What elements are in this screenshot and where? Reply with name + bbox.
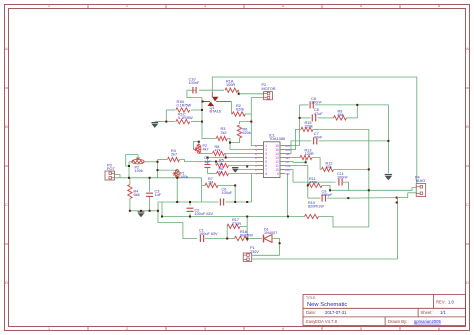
svg-text:G: G bbox=[255, 145, 257, 148]
svg-text:100nF: 100nF bbox=[189, 81, 200, 85]
svg-text:820R/1W: 820R/1W bbox=[308, 204, 324, 208]
svg-text:1.0: 1.0 bbox=[448, 300, 454, 305]
svg-text:100uF: 100uF bbox=[222, 191, 233, 195]
svg-text:VLT: VLT bbox=[285, 161, 290, 164]
svg-text:230V: 230V bbox=[250, 250, 259, 254]
svg-text:1M: 1M bbox=[208, 181, 213, 185]
svg-text:0.1R/5W: 0.1R/5W bbox=[178, 116, 193, 120]
svg-text:2k7: 2k7 bbox=[171, 152, 177, 156]
svg-text:620k: 620k bbox=[236, 107, 244, 111]
svg-text:B: B bbox=[5, 124, 8, 129]
svg-text:1/1: 1/1 bbox=[440, 310, 446, 315]
svg-text:47nF: 47nF bbox=[314, 136, 323, 140]
svg-text:TDA1085: TDA1085 bbox=[269, 137, 285, 141]
svg-text:A: A bbox=[466, 46, 469, 51]
svg-text:4k7: 4k7 bbox=[203, 147, 209, 151]
svg-text:6k8/5W: 6k8/5W bbox=[240, 233, 253, 237]
svg-text:C: C bbox=[5, 202, 8, 207]
svg-text:100nF: 100nF bbox=[337, 176, 348, 180]
svg-text:0.1R/5W: 0.1R/5W bbox=[177, 103, 192, 107]
svg-text:MOTOR: MOTOR bbox=[262, 87, 276, 91]
svg-text:MOT: MOT bbox=[285, 145, 291, 148]
svg-text:POT: POT bbox=[107, 167, 115, 171]
svg-text:2017-07-31: 2017-07-31 bbox=[325, 310, 347, 315]
svg-text:Drawn By:: Drawn By: bbox=[388, 319, 407, 324]
svg-text:SET: SET bbox=[285, 157, 290, 160]
svg-text:TAHO: TAHO bbox=[415, 179, 425, 183]
svg-text:SPD: SPD bbox=[285, 153, 290, 156]
svg-text:470k: 470k bbox=[309, 181, 317, 185]
svg-text:100k: 100k bbox=[180, 175, 188, 179]
svg-text:1k: 1k bbox=[219, 171, 223, 175]
svg-text:100uF 63V: 100uF 63V bbox=[199, 232, 218, 236]
svg-text:1k: 1k bbox=[219, 162, 223, 166]
svg-text:100nF: 100nF bbox=[311, 100, 322, 104]
svg-text:270R: 270R bbox=[232, 222, 241, 226]
svg-text:EasyEDA V4.7.8: EasyEDA V4.7.8 bbox=[306, 319, 338, 324]
svg-text:FRQ: FRQ bbox=[285, 169, 290, 172]
svg-text:D: D bbox=[5, 280, 8, 285]
svg-text:Date:: Date: bbox=[306, 310, 316, 315]
svg-text:TITLE:: TITLE: bbox=[306, 296, 316, 300]
svg-text:680pF: 680pF bbox=[322, 193, 333, 197]
svg-text:6k8: 6k8 bbox=[134, 193, 140, 197]
svg-text:1uF: 1uF bbox=[204, 160, 211, 164]
svg-text:68k: 68k bbox=[338, 113, 344, 117]
svg-text:A: A bbox=[5, 46, 8, 51]
svg-text:1N4007: 1N4007 bbox=[264, 231, 277, 235]
svg-text:C: C bbox=[466, 202, 469, 207]
svg-text:8: 8 bbox=[265, 172, 267, 176]
svg-text:BTA16: BTA16 bbox=[210, 110, 221, 114]
svg-text:Sheet:: Sheet: bbox=[421, 310, 433, 315]
svg-text:CUR: CUR bbox=[285, 165, 290, 168]
svg-text:220k: 220k bbox=[305, 125, 313, 129]
svg-text:100uF 63V: 100uF 63V bbox=[195, 212, 214, 216]
svg-text:RMP: RMP bbox=[285, 149, 291, 152]
svg-text:B: B bbox=[466, 124, 469, 129]
svg-text:100k: 100k bbox=[135, 169, 143, 173]
svg-text:120R: 120R bbox=[305, 152, 314, 156]
svg-text:gpmarian2005: gpmarian2005 bbox=[414, 319, 441, 324]
svg-text:9: 9 bbox=[277, 172, 279, 176]
svg-text:1uF: 1uF bbox=[155, 193, 162, 197]
svg-text:REV:: REV: bbox=[436, 300, 446, 305]
svg-text:47k: 47k bbox=[215, 148, 221, 152]
svg-text:100R: 100R bbox=[226, 83, 235, 87]
svg-text:47uF: 47uF bbox=[314, 112, 323, 116]
svg-text:33k: 33k bbox=[326, 165, 332, 169]
svg-text:New Schematic: New Schematic bbox=[307, 302, 347, 308]
svg-text:620k: 620k bbox=[243, 131, 251, 135]
svg-text:D: D bbox=[466, 280, 469, 285]
svg-text:D: D bbox=[255, 157, 257, 160]
svg-text:TAC: TAC bbox=[285, 173, 290, 176]
svg-text:R: R bbox=[255, 153, 257, 156]
svg-text:2k2: 2k2 bbox=[221, 131, 227, 135]
svg-text:C: C bbox=[255, 165, 257, 168]
